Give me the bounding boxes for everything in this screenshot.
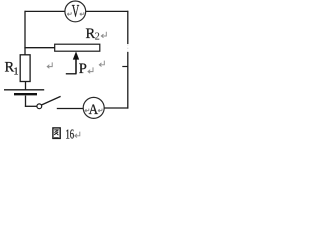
wire bottom-right segment [104, 107, 128, 109]
wire right vertical upper [127, 11, 129, 44]
rheostat slider arrow P [66, 51, 79, 73]
ammeter A [83, 97, 104, 118]
switch pivot [37, 104, 42, 109]
paragraph mark upper right of P [99, 61, 104, 67]
battery long plate [4, 89, 44, 91]
svg-text:V: V [72, 1, 80, 21]
paragraph mark left of slider [47, 62, 52, 68]
paragraph mark after P [88, 67, 93, 73]
wire rheostat feed [24, 47, 54, 49]
wire battery to switch [25, 96, 27, 107]
wire stub on right line [122, 66, 128, 68]
rheostat R2 body [55, 44, 100, 51]
wire to switch pivot [25, 105, 37, 107]
paragraph mark after 16 [75, 132, 80, 138]
svg-text:P: P [79, 61, 87, 77]
label R2 [86, 26, 100, 43]
wire top-right segment [86, 10, 129, 12]
wire R1 to battery [25, 82, 27, 90]
wire bottom-left segment [57, 108, 84, 110]
svg-text:A: A [89, 102, 99, 118]
svg-text:2: 2 [95, 32, 100, 43]
label R1 [5, 60, 19, 78]
svg-text:1: 1 [14, 67, 19, 78]
svg-text:16: 16 [66, 127, 75, 142]
switch blade [41, 96, 60, 105]
paragraph mark after R2 [101, 32, 106, 38]
battery short plate [14, 93, 37, 95]
resistor R1 body [20, 55, 30, 82]
caption character tu (figure) [53, 128, 60, 138]
voltmeter V [65, 1, 86, 22]
wire top-left segment [25, 10, 66, 12]
wire right vertical lower [127, 52, 129, 109]
wire right vertical gap (faint) [127, 45, 129, 53]
wire left vertical [24, 11, 26, 55]
